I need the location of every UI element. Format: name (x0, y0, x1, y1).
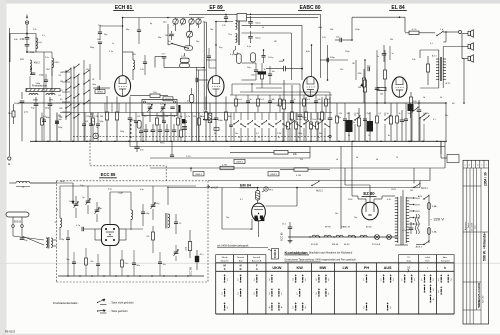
svg-text:6,8k: 6,8k (14, 39, 18, 41)
svg-text:UKW2: UKW2 (97, 92, 104, 94)
potentiometer volume 1M (363, 80, 366, 92)
wire EF89 screen horizontals (206, 59, 216, 61)
svg-text:4,7M: 4,7M (222, 165, 227, 167)
band label UKW2 box (95, 90, 105, 94)
svg-text:M: M (224, 263, 226, 267)
resistor 330k EABC (320, 112, 323, 120)
inductor L5 mid (131, 210, 133, 220)
svg-text:33p: 33p (319, 133, 322, 135)
resistor det 100k (290, 112, 293, 120)
wire antenna to bandswitch (9, 55, 11, 62)
svg-text:0,1: 0,1 (42, 35, 45, 37)
wire dipole arrow lead (30, 182, 73, 184)
svg-text:U2: U2 (86, 69, 88, 71)
wire EM84 left L (221, 188, 223, 230)
trimmer 4,5p right (151, 204, 156, 206)
resistor cathode ECH81 (115, 112, 118, 120)
wire osc row to IF2 box (189, 13, 237, 15)
svg-text:4p: 4p (150, 23, 152, 25)
svg-text:U1: U1 (92, 79, 94, 81)
svg-text:245: 245 (410, 190, 413, 192)
svg-text:0,1: 0,1 (430, 43, 433, 45)
svg-text:4,7n: 4,7n (402, 230, 406, 232)
svg-text:AUS 1: AUS 1 (316, 190, 323, 193)
svg-text:81s: 81s (90, 261, 93, 263)
resistor 4,7M no2 (294, 168, 308, 171)
switch AUS1 left (311, 185, 312, 186)
svg-text:6s: 6s (348, 135, 350, 137)
title block dividers (463, 185, 481, 187)
switch mesh third column (73, 67, 74, 68)
capacitor cathode EF89 (214, 117, 219, 119)
rectifier tube EZ80 (362, 202, 378, 220)
capacitor input EF89 area (207, 55, 211, 57)
variable capacitor gang 1 (148, 106, 152, 108)
legend symbol open contact (97, 302, 98, 303)
svg-text:50p: 50p (196, 41, 199, 43)
capacitor IF2 500p upper (248, 21, 253, 23)
svg-text:3s: 3s (278, 137, 280, 139)
resistor grid 1M ECH81 (105, 112, 108, 120)
svg-text:Lokal: Lokal (425, 257, 431, 259)
svg-text:AUS 1: AUS 1 (421, 187, 428, 190)
capacitor 13p (66, 237, 70, 239)
oscillator trimmer coil row (173, 19, 178, 24)
svg-text:Pot 1: Pot 1 (238, 98, 242, 101)
capacitor bottom row M1s (132, 262, 136, 264)
svg-text:10: 10 (407, 266, 411, 270)
wire EABC80 anode (311, 45, 313, 76)
svg-text:10s: 10s (163, 264, 166, 266)
svg-text:... Taste nicht gedrückt: ... Taste nicht gedrückt (109, 301, 134, 304)
svg-text:300 Ω: 300 Ω (14, 220, 22, 224)
svg-text:Poti: Poti (313, 118, 317, 121)
svg-text:0,1: 0,1 (433, 119, 436, 121)
svg-text:EM 84: EM 84 (332, 244, 339, 246)
trimmer row top 9p (86, 200, 91, 202)
svg-text:Normal: Normal (237, 256, 245, 259)
svg-text:UKW 4: UKW 4 (236, 162, 243, 164)
svg-text:prim.: prim. (24, 111, 29, 114)
svg-text:596 W. »Miranda«: 596 W. »Miranda« (483, 232, 487, 261)
nested wire level 4 (242, 32, 292, 34)
svg-text:2,2n: 2,2n (160, 104, 164, 106)
dashed box FM tuner chimney (89, 140, 91, 166)
svg-text:10 k: 10 k (203, 111, 207, 113)
label H 6,37 (207, 186, 210, 188)
ferrite rod antenna (26, 89, 60, 92)
svg-text:Wien XIV: Wien XIV (482, 295, 484, 303)
wire AT feed from switch (445, 32, 447, 42)
wire B plus drop right end (445, 103, 447, 141)
svg-text:Drucktastenkontakte :: Drucktastenkontakte : (53, 301, 79, 305)
switch AUS top (423, 198, 424, 199)
capacitor 2n EL84 (382, 53, 387, 55)
svg-text:150p: 150p (200, 116, 204, 118)
tuning gang capacitor box (142, 100, 177, 116)
svg-text:2s: 2s (258, 137, 260, 139)
wire interconnect L1 (130, 146, 310, 148)
left antenna extra verticals (43, 52, 45, 113)
resistor 390 bleeder (389, 116, 392, 124)
triode ECC85 tube (102, 225, 120, 246)
svg-text:5k: 5k (262, 27, 264, 29)
capacitor row below gang (144, 129, 148, 131)
node E earth terminal (8, 157, 11, 160)
wire output transformer connections (438, 50, 440, 58)
power transformer primary (397, 197, 399, 243)
resistor tone 1,5k (426, 64, 429, 72)
capacitor 50p grid ladder lower (98, 41, 102, 43)
svg-text:50p: 50p (104, 34, 107, 36)
svg-text:500 p: 500 p (255, 22, 261, 24)
capacitor 27n below rail (134, 146, 139, 148)
svg-text:k: k (444, 266, 446, 270)
resistor 21b line box (12, 111, 15, 117)
svg-text:500p: 500p (99, 121, 103, 123)
svg-text:220p: 220p (58, 127, 62, 129)
svg-text:1n: 1n (112, 43, 114, 45)
svg-text:7s: 7s (368, 135, 370, 137)
wire detector junction (327, 45, 329, 80)
table outer and grid (216, 255, 234, 263)
wire crossbar y119 (204, 118, 216, 120)
power transformer core (400, 196, 402, 245)
antenna cap detail (26, 15, 28, 17)
switch osc wave change (171, 43, 172, 44)
capacitor 4,7p left (81, 227, 83, 231)
pot row above switch bank (235, 99, 238, 106)
capacitor 6,8k screen (128, 117, 133, 119)
svg-text:4k7: 4k7 (357, 113, 360, 115)
resistor 22k tuner (188, 242, 191, 251)
wire chassis ground rail (30, 140, 447, 142)
svg-text:: Draufsicht nach Abnahme der: : Draufsicht nach Abnahme der Rückwand (308, 251, 353, 254)
svg-text:47k: 47k (85, 121, 88, 123)
svg-text:1,5k: 1,5k (33, 29, 37, 31)
capacitor 15n heater (288, 226, 292, 228)
resistor 100 ohm osc (150, 94, 160, 97)
resistor 10k vertical dark (208, 113, 212, 122)
wire transformer bottom (395, 244, 408, 246)
svg-text:1n: 1n (96, 127, 98, 129)
table contact glyphs (224, 274, 226, 276)
svg-text:MW: MW (320, 266, 327, 270)
wire speaker bus (462, 33, 468, 35)
svg-text:S: S (224, 267, 226, 271)
svg-text:Gezeichnete Tastenstellung: UK: Gezeichnete Tastenstellung: UKW eingesch… (285, 258, 356, 261)
capacitor ECH81 top 50p (137, 29, 141, 31)
svg-text:FY/0,5 A: FY/0,5 A (372, 243, 381, 246)
capacitor 100n EABC (328, 117, 333, 119)
svg-text:UKW: UKW (60, 181, 65, 183)
svg-text:500 p: 500 p (255, 37, 261, 39)
svg-text:1,5k: 1,5k (19, 38, 24, 41)
svg-text:A: A (256, 267, 258, 271)
wire tuner mid horizontals (94, 229, 96, 240)
svg-text:1s: 1s (238, 137, 240, 139)
inductor antenna coil L1 (36, 38, 38, 49)
wire mains verticals (411, 112, 413, 141)
wire EL84 top feed (352, 16, 405, 18)
svg-text:2,5n: 2,5n (426, 113, 430, 115)
svg-text:50n: 50n (408, 113, 411, 115)
detector cluster caps (254, 69, 258, 71)
svg-text:50k: 50k (330, 29, 333, 31)
wire ECC85 side leads (95, 228, 102, 230)
svg-text:UKW 5: UKW 5 (270, 174, 277, 176)
feedthrough capacitor 45n (195, 256, 199, 262)
svg-text:ECC 85: ECC 85 (101, 172, 116, 177)
speaker LS3 (468, 56, 471, 60)
dashed box FM tuner outline (57, 180, 209, 182)
svg-text:1,5k: 1,5k (322, 37, 326, 39)
triode-diode EABC80 tube (303, 77, 318, 97)
small box 104 (214, 128, 219, 131)
svg-text:EABC 80: EABC 80 (299, 5, 320, 11)
svg-text:10µH: 10µH (118, 193, 123, 195)
AVC circle right (329, 135, 331, 137)
pentode EL84 tube (392, 77, 407, 97)
svg-text:8n: 8n (214, 133, 216, 135)
wire IF2 interconnect (235, 46, 237, 50)
dipole antenna 300 ohm (6, 212, 29, 217)
output transformer core (440, 57, 442, 81)
svg-text:Pot 3: Pot 3 (306, 98, 310, 101)
wire EM84 right L (265, 205, 297, 207)
svg-text:1M: 1M (358, 87, 361, 89)
svg-text:1M: 1M (319, 119, 322, 121)
triode ECH81 tube (115, 76, 131, 97)
wire antenna lead (26, 24, 28, 33)
wire left drop (8, 28, 10, 156)
svg-text:EZ 80: EZ 80 (363, 191, 375, 196)
svg-text:AUS: AUS (384, 266, 392, 270)
capacitor 70p EF89 grid (195, 78, 197, 83)
capacitor antenna 1,5k upper (25, 37, 30, 39)
svg-text:Kompakt: Kompakt (441, 260, 450, 263)
capacitor 2,2k on L2 (170, 154, 174, 156)
wire ECH81 anode to B+ (122, 18, 124, 76)
resistor 12k EL84 (377, 87, 386, 90)
output transformer AT windings (438, 58, 440, 80)
capacitor dark plates (182, 126, 187, 128)
svg-text:Autorisiert: Autorisiert (464, 221, 467, 230)
svg-text:20k: 20k (390, 39, 393, 41)
more mid band verticals left (104, 103, 106, 113)
capacitor 50p grid ladder upper (98, 31, 102, 33)
wire EZ80 cathode feed (369, 185, 371, 202)
dashed AVC line (73, 135, 330, 137)
capacitor osc 500p (169, 33, 174, 35)
capacitor 500p bold (258, 71, 267, 74)
balun transformer input (46, 238, 48, 248)
svg-text:2954 / 36: 2954 / 36 (483, 172, 487, 186)
switch column mesh (83, 60, 85, 113)
wire H junction (90, 113, 93, 115)
svg-text:Ball: Ball (239, 261, 243, 263)
inductor stack KW1 (52, 58, 54, 68)
svg-text:2M: 2M (274, 41, 277, 43)
capacitor antenna 1,5k lower (25, 44, 30, 46)
wire grid ladder (99, 52, 101, 80)
capacitor 10n tone (375, 87, 380, 89)
dense parts under EABC80 extra (287, 122, 290, 129)
svg-text:Fern: Fern (425, 260, 430, 263)
svg-text:4,7n: 4,7n (186, 116, 190, 118)
capacitor 140p (48, 103, 53, 105)
mid band components row (41, 118, 44, 125)
resistor bottom row 71s (121, 260, 124, 267)
svg-text:Ph 1: Ph 1 (269, 190, 274, 192)
capacitor 4,7n mains (409, 227, 414, 229)
svg-text:10n: 10n (272, 71, 275, 73)
svg-text:6,8k: 6,8k (306, 51, 310, 53)
svg-text:c: c (473, 165, 474, 167)
nested wire level 2 (247, 17, 318, 19)
wire link to contact box (268, 249, 272, 251)
svg-text:E: E (8, 162, 10, 166)
band label UKW4 box (234, 159, 245, 163)
svg-text:TO: TO (407, 257, 410, 259)
magic eye tube EM84 (252, 203, 266, 221)
capacitor 75p dipole (20, 237, 25, 239)
svg-text:300p: 300p (90, 47, 94, 49)
electrolytic 50uF no2 (367, 121, 374, 132)
svg-text:♪: ♪ (427, 266, 429, 270)
speaker LS2 (468, 44, 471, 48)
capacitor det 330p (298, 114, 303, 116)
heater winding EZ80 (360, 235, 367, 237)
svg-text:0,1: 0,1 (282, 99, 285, 101)
svg-text:10n: 10n (335, 213, 338, 215)
svg-text:ECH 81: ECH 81 (311, 244, 319, 246)
resistor 5k6 EL84 (362, 78, 365, 87)
svg-text:Ferrit A.: Ferrit A. (253, 256, 261, 259)
resistor 470k grid EL84 (383, 70, 386, 79)
capacitor 300p EABC (326, 58, 328, 63)
svg-text:K1: K1 (59, 95, 61, 97)
wire antenna cluster links (36, 51, 52, 53)
svg-text:N: N (240, 263, 242, 267)
choke black bar 1 (178, 105, 180, 113)
svg-text:1b: 1b (423, 97, 425, 99)
svg-text:10n: 10n (347, 113, 350, 115)
switch AUS 2 (423, 244, 424, 245)
svg-text:100n: 100n (218, 120, 224, 122)
capacitor 6,8p (141, 211, 145, 213)
svg-text:H 6,37: H 6,37 (211, 186, 219, 189)
band label UKW1 box (163, 97, 173, 101)
capacitor 200p (31, 72, 36, 74)
svg-text:KW1: KW1 (20, 59, 24, 61)
resistor screen EF89 (204, 112, 207, 120)
variable capacitor gang 2 (161, 106, 165, 108)
wire interconnect L3 (150, 167, 445, 169)
trimmer row top 1,5p (74, 203, 79, 205)
svg-text:250V: 250V (348, 199, 353, 201)
svg-text:M1: M1 (58, 115, 61, 117)
svg-text:MINERVA-RADIO: MINERVA-RADIO (477, 282, 481, 307)
extra osc components (133, 60, 135, 70)
svg-text:10k: 10k (172, 116, 175, 118)
electrolytic 50uF no1 (346, 120, 353, 132)
band label UKW3 box (193, 172, 204, 176)
dial lamp 1 (375, 235, 380, 240)
capacitor 260p ferrite (20, 100, 25, 102)
ratio detector cluster 100p (251, 53, 256, 62)
wire switch column drops (70, 69, 72, 142)
svg-text:AUS 2: AUS 2 (416, 246, 423, 249)
svg-text:50p: 50p (66, 259, 69, 261)
svg-text:50k: 50k (290, 119, 293, 121)
svg-text:10n: 10n (235, 133, 238, 135)
resistor 11b (190, 94, 194, 102)
wire right drop to AUS1 (413, 168, 415, 184)
band switch contact stack S1 (65, 71, 66, 72)
mains cable wavy (415, 214, 417, 234)
wire interconnect L5 (167, 187, 420, 189)
trimmer row top stubs (175, 18, 177, 20)
svg-text:ECC 85: ECC 85 (281, 232, 284, 241)
pushbutton switch bank contacts (233, 113, 235, 121)
switch mains AUS pole 2 (419, 117, 420, 118)
wire osc connections (167, 24, 169, 45)
svg-text:1M: 1M (352, 63, 355, 65)
svg-text:1k: 1k (294, 99, 296, 101)
dense filter parts right (336, 116, 339, 123)
svg-text:PH: PH (364, 266, 370, 270)
svg-text:2b: 2b (356, 157, 358, 159)
capacitor 50p grid (97, 86, 99, 91)
capacitor 1,5 series (174, 221, 178, 223)
node A measuring point (93, 133, 99, 139)
heater winding EF89 (324, 235, 331, 237)
svg-text:2,2n: 2,2n (45, 57, 49, 59)
svg-text:Akz.: Akz. (443, 256, 448, 259)
wire B+ rail (18, 102, 446, 104)
svg-text:d: d (477, 165, 478, 167)
wire heater chain (288, 236, 397, 238)
svg-text:71s: 71s (125, 263, 128, 265)
svg-text:... Taste gedrückt: ... Taste gedrückt (109, 310, 128, 313)
svg-text:2b: 2b (440, 97, 442, 99)
wire parallel verticals left of EF89 (196, 67, 198, 141)
svg-text:500p: 500p (120, 131, 124, 133)
capacitor 90p (34, 103, 39, 105)
capacitor 500p antenna area (44, 79, 48, 81)
resistor 22k interconnect (274, 151, 288, 155)
svg-text:27k: 27k (146, 236, 149, 238)
svg-text:0,5M: 0,5M (298, 119, 303, 121)
svg-text:B: B (240, 267, 242, 271)
wire pot row rail (230, 94, 332, 96)
wire EF89 anode (215, 22, 217, 76)
transformer top lead (402, 190, 404, 196)
svg-text:ECC 85: ECC 85 (189, 266, 193, 276)
svg-text:47k: 47k (137, 116, 140, 118)
svg-text:1n: 1n (144, 116, 146, 118)
svg-text:4s: 4s (298, 137, 300, 139)
svg-text:Aussen A.: Aussen A. (252, 260, 262, 263)
wire interconnect L4 (208, 180, 430, 182)
inductor KW2 coil (30, 60, 32, 70)
ferrite rod hatching (26, 89, 28, 92)
capacitor 10n coupling (339, 38, 341, 43)
IF transformer 2 top box (237, 14, 247, 22)
resistor 4,7M no1 (220, 166, 234, 169)
oscillator coil unit second row (187, 32, 193, 38)
